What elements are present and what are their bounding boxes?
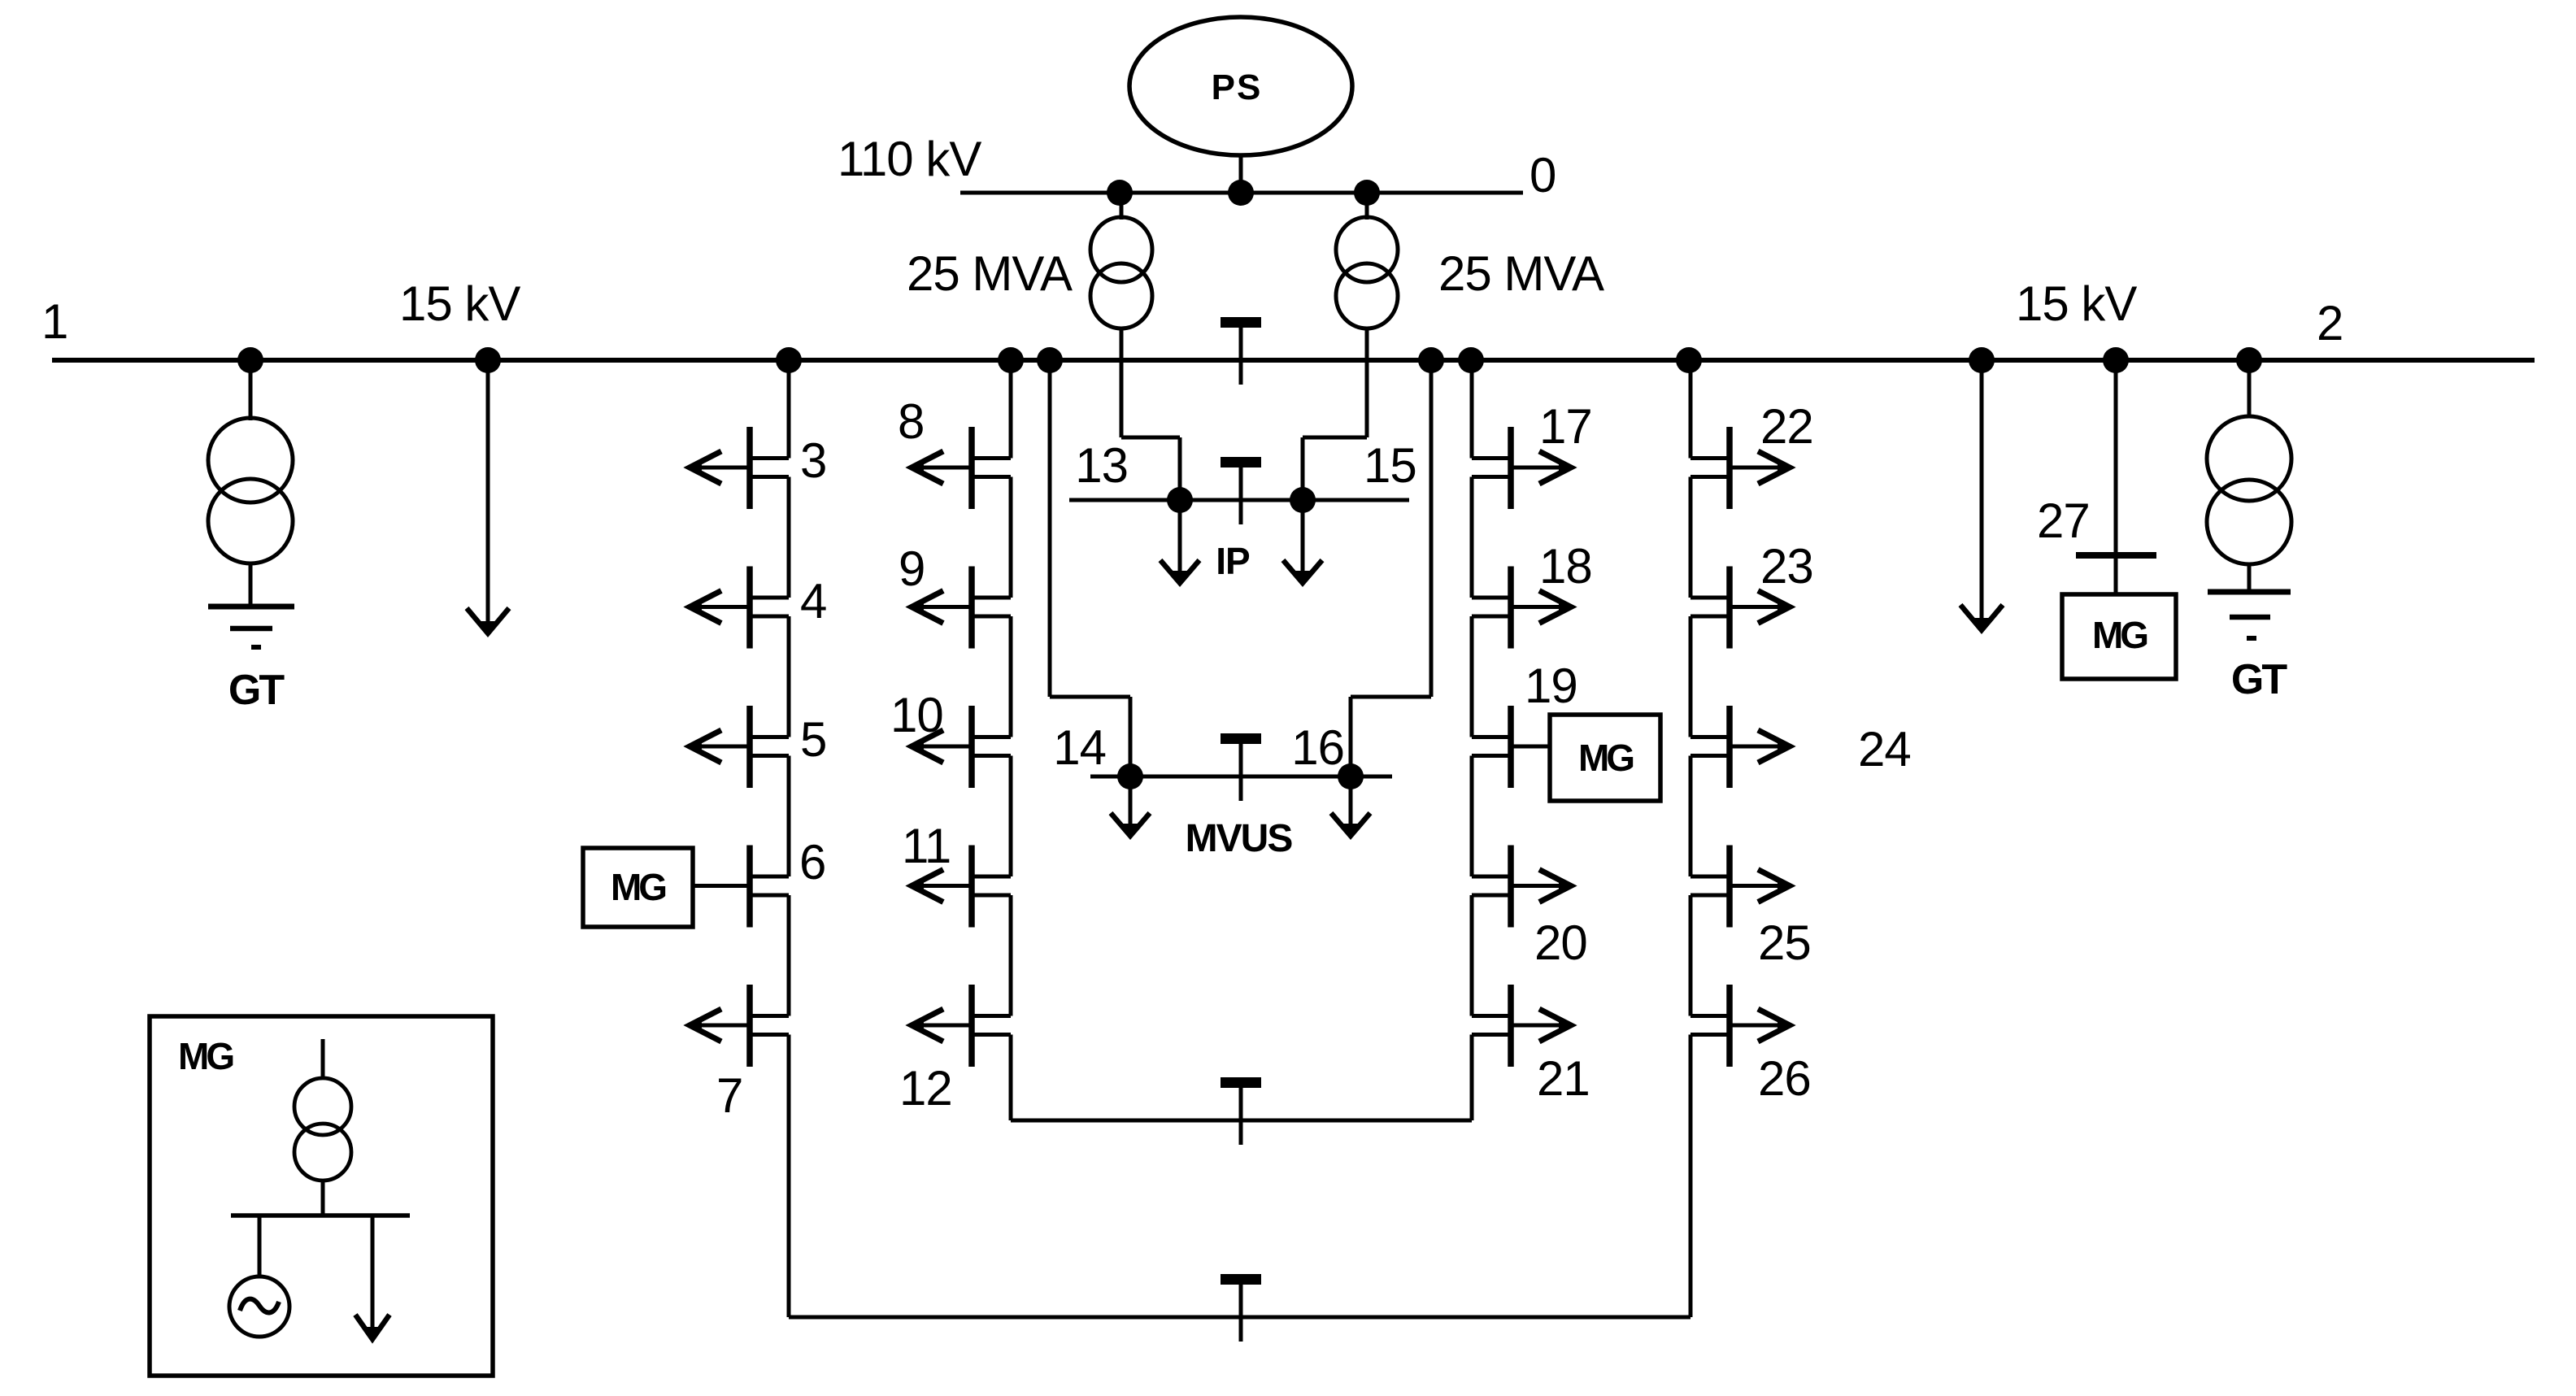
svg-text:23: 23 <box>1760 539 1813 594</box>
svg-text:19: 19 <box>1525 659 1577 713</box>
feeder tap node 18 <box>1472 567 1571 649</box>
node dot 16 <box>1338 763 1364 789</box>
feeder tap node 3 <box>690 427 789 509</box>
load arrow right <box>1960 360 2003 630</box>
svg-text:110 kV: 110 kV <box>838 132 981 186</box>
svg-text:GT: GT <box>2231 656 2287 703</box>
svg-text:11: 11 <box>902 819 951 873</box>
svg-text:PS: PS <box>1212 67 1263 107</box>
svg-text:24: 24 <box>1858 722 1911 776</box>
svg-text:25 MVA: 25 MVA <box>907 246 1073 301</box>
svg-text:17: 17 <box>1539 399 1592 454</box>
svg-text:25 MVA: 25 MVA <box>1438 246 1604 301</box>
legend generator <box>229 1216 289 1337</box>
legend load arrow <box>355 1216 389 1339</box>
feeder tap node 26 <box>1690 985 1790 1067</box>
microgrid MG box node 19 <box>1550 715 1660 801</box>
load arrow node 14 <box>1111 776 1150 836</box>
node dot feeder D <box>1676 347 1702 373</box>
wire to node 15 <box>1303 360 1367 500</box>
feeder tap node 25 <box>1690 846 1790 928</box>
feeder tap node 9 <box>912 567 1011 649</box>
tie line B-C <box>1011 1119 1472 1123</box>
svg-text:13: 13 <box>1075 438 1128 493</box>
legend transformer <box>294 1039 351 1214</box>
svg-text:0: 0 <box>1529 148 1556 202</box>
wire to node 13 <box>1121 360 1180 500</box>
svg-text:7: 7 <box>716 1068 742 1123</box>
node dot MVUS left lead <box>1037 347 1063 373</box>
wire to node 16 <box>1351 360 1431 776</box>
svg-text:2: 2 <box>2317 296 2343 350</box>
svg-text:15: 15 <box>1364 438 1416 493</box>
feeder tap node 7 <box>690 985 789 1067</box>
tie switch on bus 1 center <box>1221 317 1261 328</box>
tie switch B-C <box>1221 1077 1261 1088</box>
wire PS to bus 0 <box>1239 155 1243 193</box>
microgrid MG box node 27 <box>2062 594 2176 679</box>
svg-text:14: 14 <box>1053 720 1106 775</box>
node dot load right <box>1969 347 1995 373</box>
svg-text:21: 21 <box>1537 1051 1590 1106</box>
svg-text:20: 20 <box>1534 915 1587 970</box>
ground GT right <box>2208 592 2291 638</box>
load arrow node 13 <box>1160 500 1199 583</box>
legend bus <box>231 1213 410 1218</box>
svg-text:27: 27 <box>2037 494 2090 548</box>
feeder tap node 20 <box>1472 846 1571 928</box>
svg-text:MG: MG <box>611 866 665 908</box>
transformer GT right <box>2207 360 2291 592</box>
node dot 13 <box>1167 487 1193 513</box>
svg-text:1: 1 <box>41 294 67 349</box>
wire node 19 to MG <box>1510 745 1550 749</box>
svg-text:10: 10 <box>890 688 943 742</box>
svg-text:MG: MG <box>178 1035 233 1077</box>
node dot 15 <box>1290 487 1316 513</box>
power source PS <box>1129 17 1352 155</box>
feeder tap node 6 <box>750 846 789 928</box>
svg-text:3: 3 <box>800 433 826 488</box>
tie line A-D <box>789 1316 1690 1320</box>
node dot MVUS right lead <box>1418 347 1444 373</box>
svg-text:MVUS: MVUS <box>1186 817 1293 860</box>
legend box MG definition <box>150 1016 493 1376</box>
svg-text:4: 4 <box>800 574 826 628</box>
feeder tap node 12 <box>912 985 1011 1067</box>
node dot GT right <box>2236 347 2262 373</box>
feeder tap node 11 <box>912 846 1011 928</box>
wire to node 14 <box>1050 360 1130 776</box>
svg-text:15 kV: 15 kV <box>2016 276 2137 331</box>
svg-text:IP: IP <box>1216 540 1250 582</box>
wire feeder C <box>1470 360 1474 1120</box>
svg-text:9: 9 <box>899 541 925 596</box>
node dot bus0-PS <box>1228 180 1254 206</box>
node dot bus0-T2 <box>1354 180 1380 206</box>
node dot GT left <box>237 347 263 373</box>
node dot 14 <box>1117 763 1143 789</box>
bus MVUS <box>1090 775 1392 779</box>
node dot 27 <box>2103 347 2129 373</box>
svg-text:GT: GT <box>228 667 285 714</box>
node dot feeder C <box>1458 347 1484 373</box>
feeder tap node 23 <box>1690 567 1790 649</box>
microgrid MG box node 6 <box>583 848 693 927</box>
feeder tap node 8 <box>912 427 1011 509</box>
svg-text:25: 25 <box>1758 915 1811 970</box>
transformer T2 25 MVA <box>1336 193 1398 360</box>
transformer GT left <box>208 360 293 607</box>
svg-text:22: 22 <box>1760 399 1813 454</box>
bus bar 27 <box>2076 552 2156 559</box>
svg-text:15 kV: 15 kV <box>399 276 520 331</box>
load arrow node 16 <box>1331 776 1370 836</box>
wire MG to node 6 <box>693 884 750 888</box>
bus 1-2 (15 kV) <box>52 358 2535 363</box>
node dot bus0-T1 <box>1107 180 1133 206</box>
svg-text:8: 8 <box>898 394 924 449</box>
svg-text:26: 26 <box>1758 1051 1811 1106</box>
bus IP <box>1069 498 1409 502</box>
feeder tap node 10 <box>912 706 1011 788</box>
svg-text:18: 18 <box>1539 539 1592 594</box>
node dot load left <box>475 347 501 373</box>
wire node 27 <box>2114 360 2118 594</box>
feeder tap node 24 <box>1690 706 1790 788</box>
ground GT left <box>208 607 294 647</box>
svg-text:6: 6 <box>799 835 825 889</box>
svg-text:16: 16 <box>1291 720 1344 775</box>
wire feeder B <box>1009 360 1013 1120</box>
feeder tap node 17 <box>1472 427 1571 509</box>
feeder tap node 21 <box>1472 985 1571 1067</box>
feeder tap node 4 <box>690 567 789 649</box>
load arrow left <box>467 360 509 633</box>
tie switch A-D <box>1221 1274 1261 1285</box>
tie switch on bus IP <box>1221 457 1261 468</box>
feeder tap node 19 <box>1472 706 1511 788</box>
feeder tap node 22 <box>1690 427 1790 509</box>
tie switch on bus MVUS <box>1221 733 1261 744</box>
svg-text:12: 12 <box>899 1061 952 1115</box>
wire feeder D <box>1689 360 1693 1317</box>
bus 0 (110 kV) <box>960 191 1523 195</box>
node dot feeder A <box>776 347 802 373</box>
svg-text:5: 5 <box>800 712 826 767</box>
feeder tap node 5 <box>690 706 789 788</box>
transformer T1 25 MVA <box>1090 193 1152 360</box>
load arrow node 15 <box>1283 500 1322 583</box>
svg-text:MG: MG <box>1578 737 1633 779</box>
node dot feeder B <box>998 347 1024 373</box>
wire feeder A <box>787 360 791 1317</box>
svg-text:MG: MG <box>2092 614 2147 656</box>
